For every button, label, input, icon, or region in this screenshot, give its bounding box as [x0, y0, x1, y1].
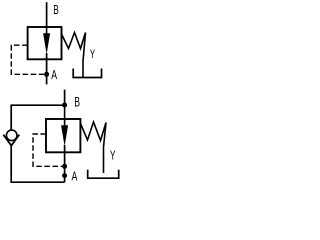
check valve V1 ball — [6, 130, 17, 141]
pilot line (dashed) from U1 left side — [11, 45, 44, 74]
tank symbol (upper drain reservoir) — [73, 69, 101, 78]
spring of U1 — [62, 33, 86, 49]
valve body U2 (square envelope) — [46, 119, 80, 152]
svg-text:B: B — [74, 94, 80, 110]
wire bypass left upper (down to check valve) — [10, 105, 12, 131]
wire bypass bottom (to port A line) — [11, 181, 65, 183]
wire port A (from U1 bottom through node A) — [46, 53, 48, 84]
valve body U1 (square envelope) — [28, 27, 62, 59]
check valve V1 seat — [3, 135, 19, 146]
drain line Y from spring end (lower) — [104, 123, 107, 174]
svg-text:Y: Y — [90, 49, 96, 62]
wire port B stub (lower) — [64, 90, 66, 105]
drain line Y from spring end — [83, 33, 86, 78]
node A junction dot — [44, 72, 49, 77]
wire port B (top stub into valve U1) — [46, 2, 48, 27]
tank symbol (lower drain reservoir) — [88, 170, 119, 179]
pilot line (dashed) from U2 left side — [33, 134, 62, 166]
svg-text:Y: Y — [110, 149, 116, 163]
svg-text:A: A — [72, 170, 78, 184]
node pilot junction dot (lower) — [62, 164, 67, 169]
wire inside U1 above arrow — [46, 27, 48, 35]
wire port A (from U2 bottom to bypass bottom) — [64, 145, 66, 182]
flow arrow in U2 (poppet, pointing down) — [61, 125, 68, 146]
node B junction dot (lower) — [62, 103, 67, 108]
wire bypass left lower (check valve to bottom) — [10, 146, 12, 183]
flow arrow in U1 (poppet, pointing down) — [43, 33, 50, 54]
wire bypass top (node B to left branch) — [11, 104, 64, 106]
wire from node B into U2 — [64, 105, 66, 127]
spring of U2 — [81, 122, 107, 141]
svg-text:B: B — [53, 3, 59, 17]
svg-text:A: A — [51, 68, 57, 82]
node A junction dot (lower) — [62, 173, 67, 178]
